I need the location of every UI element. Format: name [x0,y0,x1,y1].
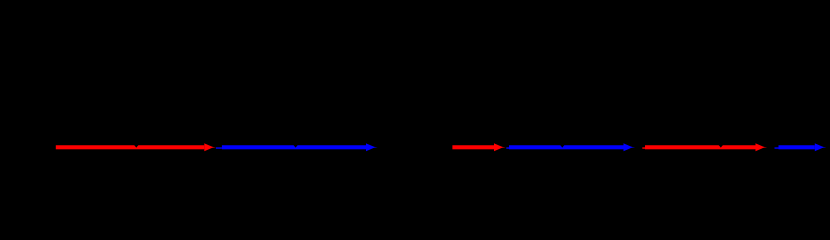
blue arrow 4 (right group) [506,144,635,150]
red arrow 5 (right group) [642,144,767,150]
blue arrow 2 (left group) [216,144,378,150]
black down-arrow tip notch over blue arrow 2 [290,141,301,148]
red arrow 1 (left group) [56,144,216,150]
blue arrow 6 (right group) [775,144,827,150]
black down-arrow tip notch over blue arrow 4 [557,141,568,148]
black down-arrow tip notch over red arrow 5 [715,141,726,148]
red arrow 3 (right group) [452,144,505,150]
black down-arrow tip notch over red arrow 1 [131,141,142,148]
